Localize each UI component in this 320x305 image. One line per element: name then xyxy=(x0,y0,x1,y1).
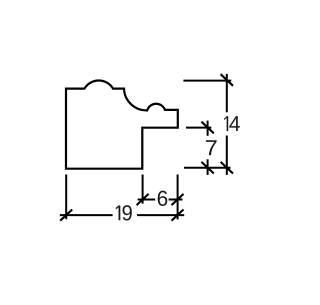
extension line top (arc peak level) xyxy=(183,80,231,82)
dimension line 6 (horizontal, broken for label) xyxy=(138,199,156,201)
extension line bottom middle (rabbet step) xyxy=(142,175,144,204)
dimension line 19 (horizontal, broken for label) xyxy=(60,214,113,216)
dimension line 7 (vertical, broken for label) xyxy=(207,121,209,136)
tick 14 top xyxy=(221,74,233,86)
label 19 xyxy=(116,205,121,220)
moulding profile cross-section xyxy=(66,81,178,169)
tick 6 right xyxy=(172,194,184,205)
label 7 xyxy=(206,140,217,155)
tick 19 right xyxy=(172,210,184,221)
tick 19 left xyxy=(60,210,72,221)
tick 14 bottom xyxy=(221,162,233,174)
extension line middle (rabbet level) xyxy=(186,127,211,129)
tick 7 bottom xyxy=(201,162,213,174)
extension line bottom right edge xyxy=(177,175,179,220)
tick 7 top xyxy=(201,122,213,134)
extension line bottom left (from profile left edge) xyxy=(65,175,67,220)
tick 6 left xyxy=(137,194,149,205)
extension line bottom right xyxy=(184,167,231,169)
dimension line 14 (vertical, broken for label) xyxy=(226,74,228,112)
label 14 xyxy=(224,116,228,131)
label 6 xyxy=(158,191,168,206)
